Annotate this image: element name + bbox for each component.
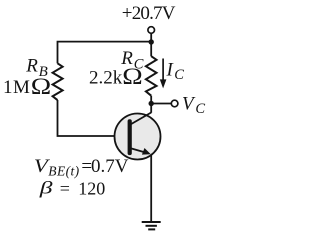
svg-text:2.2k: 2.2k <box>89 67 123 88</box>
transistor collector lead (diagonal) <box>131 113 152 125</box>
svg-text:1M: 1M <box>3 77 30 98</box>
resistor RC <box>146 56 157 95</box>
svg-text:Ω: Ω <box>122 63 142 90</box>
wire: collector node to VC terminal <box>151 103 171 105</box>
transistor base bar <box>128 119 132 155</box>
transistor Q1 body (circle) <box>115 114 161 160</box>
junction dot (top node) <box>149 39 154 44</box>
wire: RC bottom to collector <box>150 96 152 113</box>
wire: RB bottom down and right to base <box>58 100 128 136</box>
current arrow IC <box>162 59 164 81</box>
wire: emitter down to ground <box>150 155 152 222</box>
junction dot (collector node) <box>149 101 154 106</box>
svg-text:=120: =120 <box>60 179 106 199</box>
transistor emitter lead (diagonal with arrow) <box>131 148 145 152</box>
svg-text:β: β <box>39 177 53 197</box>
wire: supply terminal down to RC top <box>150 34 152 57</box>
resistor RB <box>53 63 63 100</box>
supply terminal (open circle) <box>148 27 155 34</box>
ground symbol <box>142 221 161 223</box>
svg-text:+20.7V: +20.7V <box>122 3 176 24</box>
wire: top horizontal from left branch to top node <box>58 42 152 64</box>
svg-text:Ω: Ω <box>31 73 51 100</box>
VC terminal (open circle) <box>171 100 178 107</box>
